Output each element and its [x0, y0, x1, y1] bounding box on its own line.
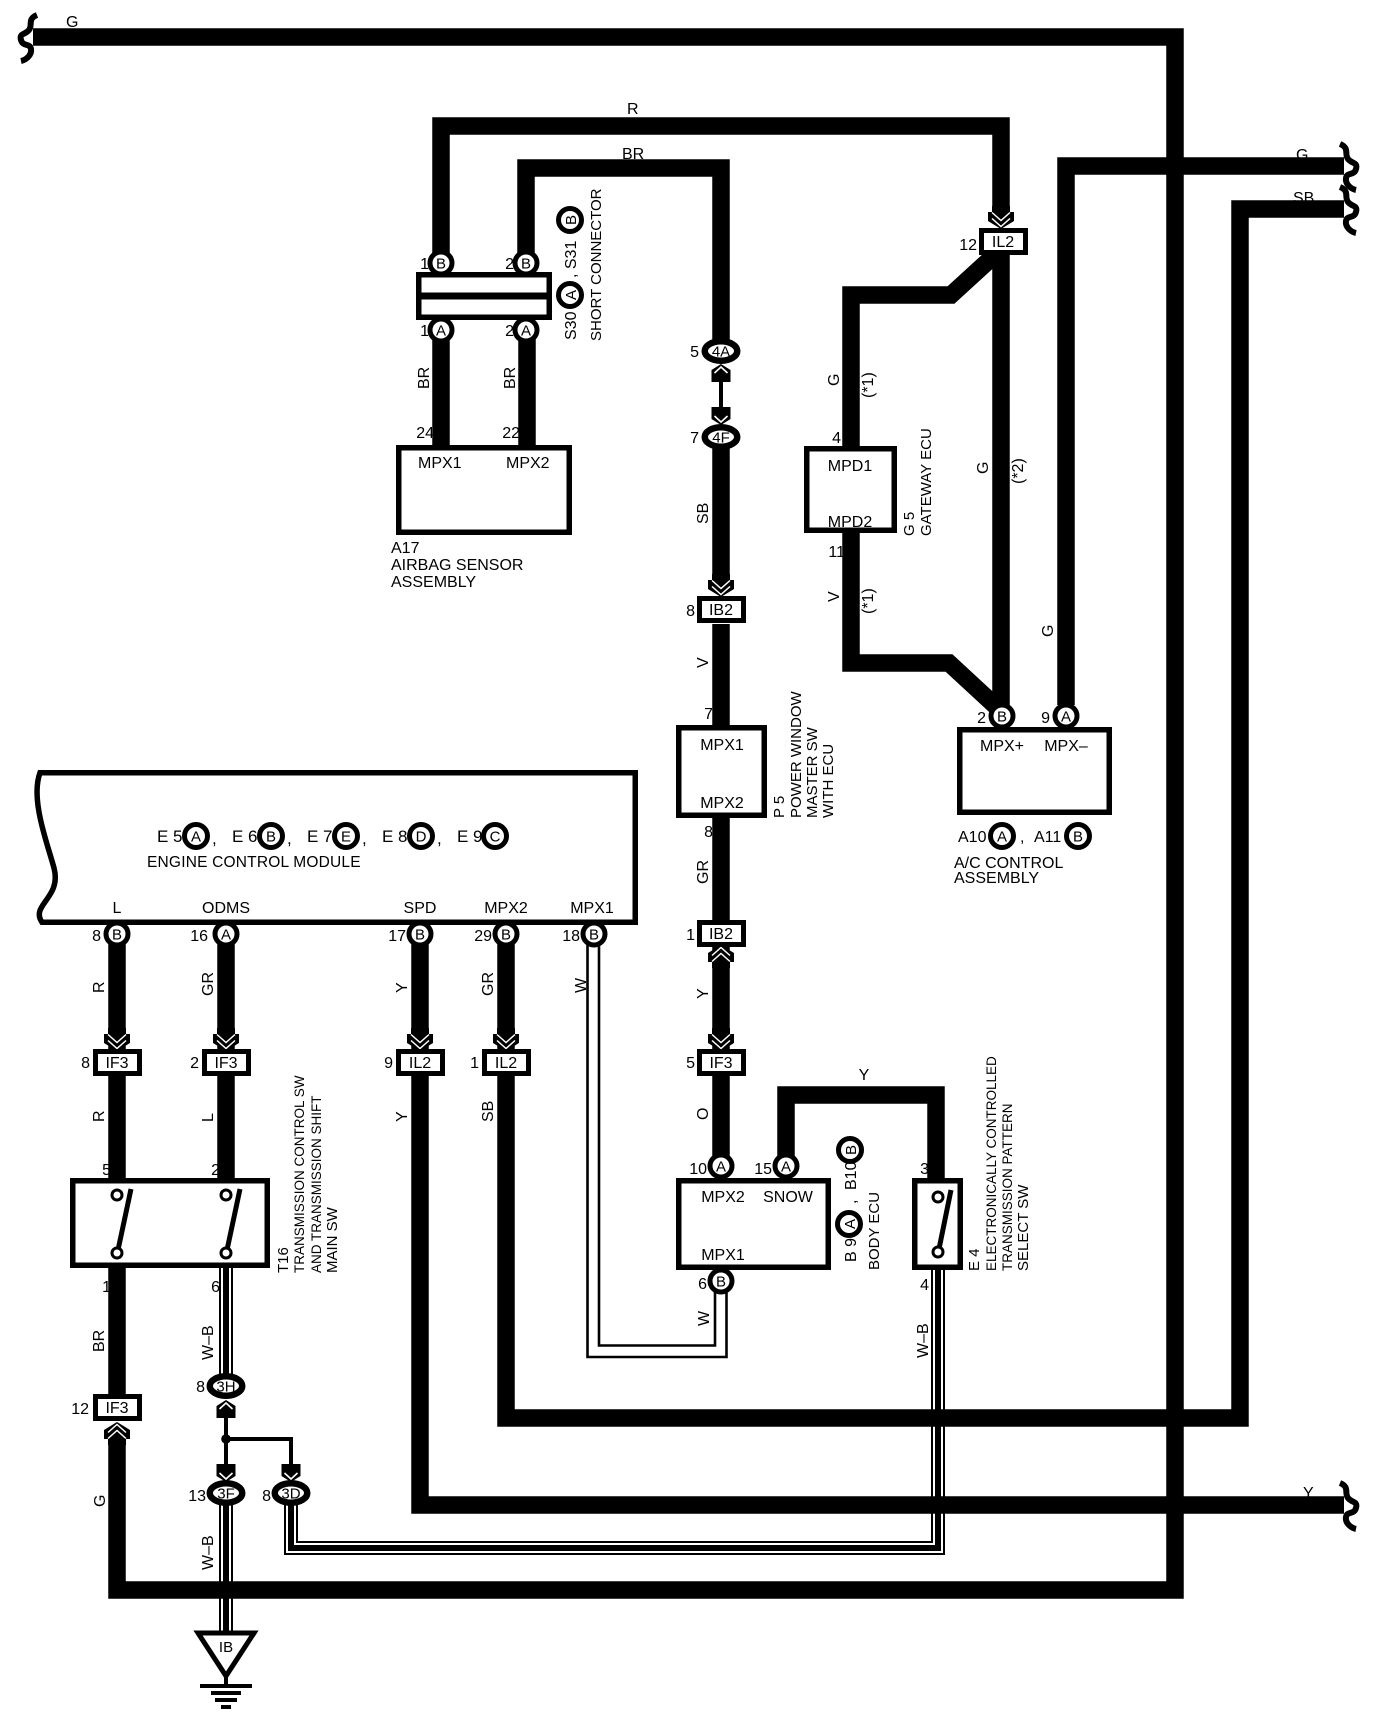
- svg-text:V: V: [695, 657, 712, 668]
- svg-text:MASTER SW: MASTER SW: [804, 726, 821, 818]
- pin 9 A A/C control: [1055, 705, 1077, 727]
- svg-text:Y: Y: [1303, 1485, 1314, 1502]
- svg-text:E 9: E 9: [457, 827, 483, 846]
- connector oval 3H: [210, 1376, 243, 1396]
- svg-text:9: 9: [384, 1055, 393, 1072]
- svg-text:MPX1: MPX1: [570, 900, 614, 917]
- svg-text:,: ,: [1020, 829, 1024, 846]
- svg-text:8: 8: [686, 603, 695, 620]
- pin 16 A ECM: [215, 923, 237, 945]
- svg-text:E: E: [341, 829, 351, 846]
- svg-text:15: 15: [754, 1161, 772, 1178]
- arrow down into IL2 12: [988, 206, 1014, 229]
- wire W (twin line) ECM pin18 MPX1 to BODY ECU pin 6B: [588, 944, 727, 1357]
- svg-text:R: R: [91, 1110, 108, 1122]
- svg-text:ENGINE CONTROL MODULE: ENGINE CONTROL MODULE: [147, 854, 361, 871]
- junction dot below 3H: [221, 1434, 231, 1444]
- arrow down into IL2 9: [407, 1028, 433, 1051]
- svg-text:IB2: IB2: [709, 926, 733, 943]
- svg-text:MPX–: MPX–: [1044, 738, 1088, 755]
- svg-text:GR: GR: [695, 860, 712, 884]
- pin 18 B ECM: [583, 923, 605, 945]
- svg-text:13: 13: [188, 1488, 206, 1505]
- wire G (*2): IL2 12 down to A/C pin 2B: [992, 252, 1010, 705]
- connector IB2 8: [700, 599, 744, 621]
- svg-text:(*1): (*1): [860, 588, 877, 614]
- wire W-B 3F to ground IB: [219, 1505, 233, 1634]
- svg-text:3F: 3F: [217, 1486, 235, 1503]
- arrow down into 3F: [217, 1464, 236, 1482]
- wire R: short connector 1B up, across, down to IL2 12: [441, 126, 1001, 262]
- svg-text:B: B: [415, 927, 425, 944]
- svg-text:A17: A17: [391, 540, 420, 557]
- svg-text:2: 2: [505, 323, 514, 340]
- component name E 4 ELECTRONICALLY CONTROLLED TRANSMISSION PATTERN SELECT SW: [966, 1056, 1032, 1271]
- svg-text:8: 8: [704, 824, 713, 841]
- svg-text:3D: 3D: [281, 1486, 300, 1503]
- pin 2 B short connector: [515, 252, 537, 274]
- svg-text:B: B: [501, 927, 511, 944]
- svg-text:MPX1: MPX1: [418, 455, 462, 472]
- connector IF3 12: [96, 1397, 140, 1419]
- svg-text:BR: BR: [91, 1330, 108, 1352]
- wire R: ECM pin 8B down to IF3 8: [108, 944, 126, 1051]
- break symbol G top left: [21, 15, 37, 61]
- connector oval 4F: [705, 427, 738, 447]
- svg-text:,: ,: [843, 1200, 860, 1204]
- svg-text:SELECT SW: SELECT SW: [1015, 1184, 1032, 1271]
- svg-text:D: D: [416, 829, 427, 846]
- wire SB net: ECM pin 29B down through IL2 1 to bottom, right, up, right to break: [506, 209, 1344, 1418]
- svg-text:BR: BR: [502, 367, 519, 389]
- wire W-B T16 pin6 to 3H: [219, 1268, 233, 1376]
- A17 airbag sensor assembly box: [399, 448, 570, 533]
- svg-text:29: 29: [474, 928, 492, 945]
- svg-text:IF3: IF3: [105, 1055, 128, 1072]
- arrow down into IF3 5: [708, 1028, 734, 1051]
- connector IF3 5: [700, 1052, 744, 1074]
- wire BR: T16 pin 1 down to IF3 12: [108, 1268, 126, 1396]
- svg-text:A: A: [781, 1159, 791, 1176]
- connector IB2 1: [700, 923, 744, 945]
- svg-text:4A: 4A: [712, 344, 730, 361]
- arrow up into 4A: [712, 364, 731, 382]
- connector IF3 8: [96, 1052, 140, 1074]
- arrow down into 4F: [712, 407, 731, 425]
- svg-text:A: A: [997, 829, 1007, 846]
- svg-text:A: A: [191, 829, 201, 846]
- svg-text:ASSEMBLY: ASSEMBLY: [391, 574, 476, 591]
- svg-text:IF3: IF3: [709, 1055, 732, 1072]
- svg-text:SB: SB: [695, 503, 712, 524]
- wire R: IF3 8 down to T16 pin 5: [108, 1076, 126, 1183]
- svg-text:7: 7: [690, 430, 699, 447]
- svg-text:W–B: W–B: [915, 1323, 932, 1358]
- T16 switch 2: [221, 1189, 240, 1258]
- svg-text:ASSEMBLY: ASSEMBLY: [954, 870, 1039, 887]
- svg-text:IL2: IL2: [409, 1055, 431, 1072]
- wire color G (*2): [975, 458, 1027, 484]
- svg-text:1: 1: [420, 323, 429, 340]
- E4 switch: [933, 1190, 951, 1257]
- svg-text:7: 7: [704, 706, 713, 723]
- svg-text:L: L: [200, 1113, 217, 1122]
- arrow down into IL2 1: [493, 1028, 519, 1051]
- svg-text:AIRBAG SENSOR: AIRBAG SENSOR: [391, 557, 523, 574]
- wire G main net: top horizontal, right vertical, bottom horizontal, up to IF3 12: [33, 37, 1175, 1590]
- svg-text:SB: SB: [480, 1101, 497, 1122]
- arrow down into 3D: [282, 1464, 301, 1482]
- svg-text:A: A: [1061, 709, 1071, 726]
- pin 29 B ECM: [495, 923, 517, 945]
- svg-text:A: A: [716, 1159, 726, 1176]
- svg-text:SHORT CONNECTOR: SHORT CONNECTOR: [588, 188, 605, 341]
- wire V: IB2 8 down to P5 pin 7: [712, 624, 730, 727]
- svg-text:22: 22: [502, 425, 520, 442]
- svg-text:,: ,: [437, 829, 442, 848]
- svg-text:,: ,: [212, 829, 217, 848]
- svg-text:TRANSMISSION CONTROL SW: TRANSMISSION CONTROL SW: [292, 1075, 307, 1273]
- component name G 5 GATEWAY ECU: [901, 428, 935, 536]
- svg-text:Y: Y: [695, 988, 712, 999]
- svg-text:SB: SB: [1293, 190, 1314, 207]
- ref row A10 A , A11 B: [958, 825, 1090, 848]
- svg-text:ODMS: ODMS: [202, 900, 250, 917]
- svg-text:6: 6: [211, 1279, 220, 1296]
- svg-text:5: 5: [686, 1055, 695, 1072]
- arrow up into 3H: [217, 1400, 236, 1418]
- svg-text:2: 2: [190, 1055, 199, 1072]
- svg-text:Y: Y: [859, 1067, 870, 1084]
- svg-text:4: 4: [920, 1277, 929, 1294]
- arrow down into IF3 8: [104, 1028, 130, 1051]
- svg-text:B: B: [1073, 829, 1083, 846]
- svg-text:1: 1: [420, 256, 429, 273]
- arrow up into IB2 1: [708, 945, 734, 968]
- svg-text:24: 24: [416, 425, 434, 442]
- svg-text:WITH ECU: WITH ECU: [820, 744, 837, 818]
- wire G right: from corner down to A/C pin 9A, horizontal to break: [1066, 166, 1344, 705]
- pin 2 B A/C control: [991, 705, 1013, 727]
- svg-text:B: B: [843, 1145, 860, 1155]
- break symbol SB right: [1340, 187, 1356, 233]
- svg-text:L: L: [113, 900, 122, 917]
- svg-text:GR: GR: [480, 972, 497, 996]
- svg-text:11: 11: [828, 544, 845, 561]
- pin 8 B ECM: [106, 923, 128, 945]
- svg-text:G: G: [975, 462, 992, 474]
- svg-text:MPX2: MPX2: [701, 1189, 745, 1206]
- svg-text:E 7: E 7: [307, 827, 333, 846]
- svg-text:, S31: , S31: [563, 241, 580, 278]
- svg-text:MPD1: MPD1: [828, 458, 873, 475]
- arrow down into IF3 2: [213, 1028, 239, 1051]
- svg-text:R: R: [627, 101, 639, 118]
- svg-text:6: 6: [698, 1276, 707, 1293]
- ECM engine control module box with torn left edge: [37, 773, 635, 923]
- svg-text:Y: Y: [394, 1111, 411, 1122]
- svg-text:B: B: [997, 709, 1007, 726]
- svg-text:2: 2: [505, 256, 514, 273]
- wire G (*1): IL2 12 diagonal to GATEWAY ECU MPD1 pin 4: [851, 252, 998, 450]
- svg-text:BR: BR: [416, 367, 433, 389]
- svg-text:G: G: [1040, 625, 1057, 637]
- svg-text:G: G: [826, 374, 843, 386]
- arrow up into IF3 12: [104, 1422, 130, 1445]
- svg-text:V: V: [826, 591, 843, 602]
- svg-text:A: A: [521, 323, 531, 340]
- svg-text:IF3: IF3: [105, 1400, 128, 1417]
- svg-text:8: 8: [196, 1379, 205, 1396]
- connector oval 3D: [275, 1483, 308, 1503]
- pin 17 B ECM: [409, 923, 431, 945]
- pin 10 A BODY ECU: [710, 1155, 732, 1177]
- svg-text:MPX1: MPX1: [700, 737, 744, 754]
- break symbol Y right: [1340, 1483, 1356, 1529]
- ref label S31 B: [559, 209, 582, 232]
- connector oval 4A: [705, 341, 738, 361]
- svg-text:16: 16: [190, 928, 208, 945]
- svg-text:B: B: [563, 215, 580, 225]
- svg-text:W–B: W–B: [200, 1325, 217, 1360]
- svg-text:17: 17: [388, 928, 406, 945]
- svg-text:B: B: [436, 256, 446, 273]
- svg-text:18: 18: [562, 928, 580, 945]
- ref label B10 B circle: [839, 1139, 862, 1162]
- wire BR stub 2A to A17 pin 22: [518, 336, 536, 448]
- T16 switch 1: [112, 1189, 131, 1258]
- short connector S30/S31 body: [416, 275, 552, 318]
- E4 transmission pattern select SW box: [915, 1181, 961, 1268]
- svg-text:G: G: [1296, 147, 1308, 164]
- wire color V (*1): [826, 588, 877, 614]
- pin 2 A short connector: [515, 319, 537, 341]
- svg-text:MPX2: MPX2: [700, 795, 744, 812]
- wire SB: 4F down to IB2 8: [712, 448, 730, 576]
- P5 power window master SW box: [679, 728, 765, 816]
- thin wire between 4A and 4F arrows: [719, 378, 723, 412]
- svg-text:5: 5: [102, 1162, 111, 1179]
- wire BR: short connector 2B up, across, down to 4A: [526, 168, 721, 340]
- svg-text:A10: A10: [958, 829, 987, 846]
- wire color G (*1): [826, 372, 877, 398]
- svg-text:5: 5: [690, 344, 699, 361]
- component name T16 TRANSMISSION CONTROL SW AND TRANSMISSION SHIFT MAIN SW: [275, 1075, 341, 1273]
- svg-text:4: 4: [832, 430, 841, 447]
- svg-text:GR: GR: [200, 972, 217, 996]
- svg-text:G: G: [66, 14, 78, 31]
- pin 1 A short connector: [430, 319, 452, 341]
- svg-text:SPD: SPD: [404, 900, 437, 917]
- T16 transmission control SW box: [73, 1181, 268, 1266]
- svg-text:MPX1: MPX1: [701, 1247, 745, 1264]
- svg-text:W: W: [696, 1310, 713, 1326]
- svg-text:,: ,: [287, 829, 292, 848]
- wire thin junction lines below 3H: [226, 1401, 291, 1464]
- svg-text:POWER WINDOW: POWER WINDOW: [788, 691, 805, 818]
- svg-text:10: 10: [689, 1161, 707, 1178]
- svg-text:W: W: [573, 977, 590, 993]
- svg-text:B: B: [589, 927, 599, 944]
- svg-text:TRANSMISSION PATTERN: TRANSMISSION PATTERN: [1000, 1103, 1015, 1271]
- svg-text:B 9: B 9: [843, 1238, 860, 1262]
- ground symbol IB: [198, 1633, 254, 1707]
- svg-text:E 4: E 4: [966, 1248, 983, 1271]
- svg-text:3H: 3H: [216, 1379, 235, 1396]
- svg-text:B: B: [716, 1274, 726, 1291]
- svg-text:1: 1: [470, 1055, 479, 1072]
- svg-text:9: 9: [1041, 710, 1050, 727]
- svg-text:12: 12: [71, 1401, 89, 1418]
- wire Y: BODY ECU pin 15A up across down to E4 pin 3: [786, 1095, 936, 1180]
- pin 1 B short connector: [430, 252, 452, 274]
- svg-text:IL2: IL2: [495, 1055, 517, 1072]
- svg-text:B10: B10: [843, 1161, 860, 1190]
- connector IL2 9: [399, 1052, 443, 1074]
- svg-text:8: 8: [92, 928, 101, 945]
- svg-text:(*2): (*2): [1010, 458, 1027, 484]
- svg-text:A: A: [436, 323, 446, 340]
- svg-text:B: B: [521, 256, 531, 273]
- wire L: IF3 2 down to T16 pin 2: [217, 1076, 235, 1183]
- svg-text:IF3: IF3: [214, 1055, 237, 1072]
- wire GR: ECM pin 16A down to IF3 2: [217, 944, 235, 1051]
- connector oval 3F: [210, 1483, 243, 1503]
- svg-text:8: 8: [262, 1488, 271, 1505]
- svg-text:A: A: [563, 290, 580, 300]
- svg-text:E 5: E 5: [157, 827, 183, 846]
- svg-text:AND TRANSMISSION SHIFT: AND TRANSMISSION SHIFT: [309, 1095, 324, 1273]
- svg-text:3: 3: [920, 1161, 929, 1178]
- svg-text:R: R: [91, 981, 108, 993]
- svg-text:O: O: [695, 1108, 712, 1120]
- svg-text:Y: Y: [394, 982, 411, 993]
- svg-text:MPX2: MPX2: [484, 900, 528, 917]
- pin 15 A BODY ECU: [775, 1155, 797, 1177]
- svg-text:S30: S30: [563, 311, 580, 340]
- svg-text:BODY ECU: BODY ECU: [866, 1192, 883, 1270]
- svg-text:A11: A11: [1034, 829, 1061, 846]
- svg-text:E 8: E 8: [382, 827, 408, 846]
- wire O: IF3 5 down to BODY ECU pin 10A: [712, 1073, 730, 1156]
- connector IF3 2: [205, 1052, 249, 1074]
- A/C control assembly box: [960, 730, 1110, 813]
- G5 gateway ECU box MPD1/MPD2: [807, 449, 895, 531]
- svg-text:1: 1: [686, 927, 695, 944]
- svg-text:A: A: [842, 1219, 859, 1229]
- component name P 5 POWER WINDOW MASTER SW WITH ECU: [771, 691, 837, 818]
- svg-text:,: ,: [362, 829, 367, 848]
- svg-text:P 5: P 5: [771, 796, 788, 818]
- svg-text:B: B: [266, 829, 276, 846]
- break symbol G right: [1340, 144, 1356, 190]
- svg-text:IL2: IL2: [992, 234, 1014, 251]
- svg-text:W–B: W–B: [200, 1535, 217, 1570]
- svg-text:C: C: [490, 829, 501, 846]
- svg-text:4F: 4F: [712, 430, 730, 447]
- svg-text:MPD2: MPD2: [828, 514, 873, 531]
- ref label B9 A circle: [838, 1213, 861, 1236]
- svg-text:BR: BR: [622, 146, 644, 163]
- svg-text:2: 2: [977, 710, 986, 727]
- svg-text:MPX2: MPX2: [506, 455, 550, 472]
- svg-text:IB: IB: [219, 1639, 233, 1656]
- svg-text:IB2: IB2: [709, 602, 733, 619]
- svg-text:MPX+: MPX+: [980, 738, 1024, 755]
- svg-text:1: 1: [102, 1279, 111, 1296]
- wire GR: P5 pin 8 down to IB2 1: [712, 816, 730, 922]
- wire BR stub 1A to A17 pin 24: [432, 336, 450, 448]
- svg-text:E 6: E 6: [232, 827, 258, 846]
- BODY ECU box: [679, 1181, 829, 1268]
- svg-text:12: 12: [959, 237, 977, 254]
- svg-text:8: 8: [81, 1055, 90, 1072]
- wire Y: IB2 1 down to IF3 5: [712, 944, 730, 1051]
- svg-text:A: A: [221, 927, 231, 944]
- svg-text:SNOW: SNOW: [763, 1189, 814, 1206]
- svg-text:B: B: [112, 927, 122, 944]
- svg-text:(*1): (*1): [860, 372, 877, 398]
- svg-text:G 5: G 5: [901, 512, 918, 536]
- wire V (*1): GATEWAY ECU MPD2 pin 11 to A/C pin 2B: [851, 533, 1002, 712]
- svg-text:ELECTRONICALLY CONTROLLED: ELECTRONICALLY CONTROLLED: [984, 1056, 999, 1271]
- svg-text:G: G: [92, 1495, 109, 1507]
- wire Y net: ECM pin 17B down through IL2 9 to bottom, right to break: [420, 944, 1344, 1505]
- wire W-B 3D to E4 pin4: [291, 1269, 938, 1548]
- svg-text:2: 2: [211, 1162, 220, 1179]
- ref label S30 A: [559, 284, 582, 307]
- arrow down into IB2 8: [708, 574, 734, 597]
- connector IL2 12: [982, 231, 1026, 253]
- connector IL2 1: [485, 1052, 529, 1074]
- svg-text:GATEWAY ECU: GATEWAY ECU: [918, 428, 935, 536]
- svg-text:MAIN SW: MAIN SW: [324, 1206, 341, 1273]
- svg-text:T16: T16: [275, 1247, 292, 1273]
- ECM ref row E5 A , E6 B , E7 E , E8 D , E9 C: [157, 825, 507, 849]
- pin 6 B BODY ECU: [710, 1270, 732, 1292]
